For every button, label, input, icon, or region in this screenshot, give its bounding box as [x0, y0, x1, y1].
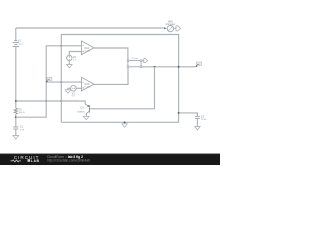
svg-text:TL081: TL081: [84, 87, 91, 89]
node junction: [45, 100, 47, 102]
footer title: [47, 155, 91, 163]
op-amp OA1: [82, 41, 94, 55]
wire W3 to OA2 minus: [46, 81, 81, 83]
svg-text:LAB: LAB: [31, 159, 40, 163]
wire left branch upper: [15, 28, 17, 40]
node junction: [60, 81, 62, 83]
wire Q1 base riser: [89, 67, 154, 109]
wire V3 to ground: [68, 88, 71, 89]
transistor Q1: [77, 104, 89, 116]
wire ammeter to flag: [174, 27, 176, 29]
node tag A: [46, 77, 52, 82]
logo CIRCUIT: [11, 155, 40, 163]
svg-text:100 Ω: 100 Ω: [19, 112, 25, 114]
op-amp OA2: [82, 77, 94, 91]
wire top net from V1 corner to ammeter: [16, 27, 164, 29]
wire V2 plus to OA1 plus: [69, 52, 81, 56]
ground: [65, 90, 71, 93]
ground: [13, 136, 19, 140]
capacitor C1: [13, 126, 24, 132]
wire left branch lower: [15, 114, 17, 127]
wire C1 to ground: [15, 129, 17, 135]
ammeter AM1: [164, 21, 175, 32]
wire box BR net to right: [142, 66, 196, 68]
svg-text:10 V: 10 V: [18, 44, 23, 46]
footer bar: [0, 154, 220, 166]
wire right branch to C2: [179, 113, 198, 116]
node junction: [60, 45, 62, 47]
wire W1 node row to Q1 emitter: [16, 101, 85, 104]
svg-text:http://circuitlab.com/c6mb4atr: http://circuitlab.com/c6mb4atr: [47, 159, 91, 163]
svg-text:1 V: 1 V: [73, 59, 77, 61]
battery V1: [13, 40, 24, 47]
wire inner loop: [61, 35, 178, 123]
svg-text:TL081: TL081: [84, 50, 91, 52]
node junction: [178, 112, 180, 114]
svg-text:2N3906: 2N3906: [77, 111, 85, 113]
voltage source V3: [71, 86, 77, 98]
resistor R1: [14, 108, 25, 114]
wire OA2 output to box BL: [94, 68, 128, 85]
wire V3 to OA2 plus: [76, 87, 81, 89]
wire box TR to flag: [142, 60, 144, 62]
terminal flag out1: [176, 26, 181, 31]
wire OA1 output to box TL: [94, 48, 128, 60]
wire V2 minus to ground: [68, 61, 70, 65]
node junction: [15, 116, 17, 118]
node junction: [154, 66, 156, 68]
svg-text:5 V: 5 V: [72, 96, 76, 98]
terminal flag out2: [144, 59, 148, 63]
node tag B: [196, 62, 202, 67]
ground: [195, 127, 201, 130]
svg-text:4.7mm: 4.7mm: [132, 58, 139, 60]
voltage source V2: [67, 55, 77, 61]
node junction: [178, 66, 180, 68]
wire C2 to ground: [196, 119, 198, 127]
box component X1: [127, 58, 142, 68]
node junction: [60, 100, 62, 102]
svg-text:1 uF: 1 uF: [20, 129, 25, 131]
svg-text:10 nF: 10 nF: [201, 119, 207, 121]
svg-text:Ammeter: Ammeter: [166, 23, 176, 26]
capacitor C2: [195, 116, 207, 122]
node junction: [15, 100, 17, 102]
wire W2 and feedback riser to OA1 minus: [16, 46, 82, 117]
ground: [67, 65, 73, 68]
ground on bottom wire: [122, 121, 128, 127]
wire left branch middle: [15, 47, 17, 109]
ground: [84, 116, 90, 119]
